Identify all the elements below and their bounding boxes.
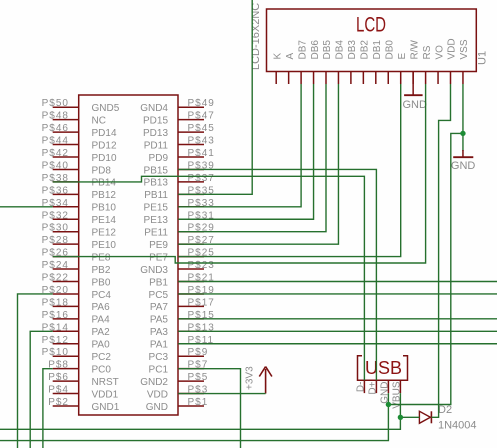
svg-text:PB15: PB15 [144, 165, 169, 176]
svg-text:P$42: P$42 [42, 148, 69, 159]
wire net P$29 to LCD DB5 [178, 84, 326, 232]
svg-text:GND4: GND4 [140, 103, 168, 114]
wire net P$38/PB14 to USB D- (jog inside IC) [53, 176, 365, 380]
svg-text:DB5: DB5 [322, 40, 333, 60]
pin P$5 (GND2) right stub + number + name [140, 372, 208, 388]
wire net P$31 to LCD DB6 [178, 84, 313, 219]
LCD pin VDD stub + label [447, 38, 458, 84]
pin P$30 (PE12) left stub + number + name [42, 223, 117, 239]
pin P$39 (PB15) right stub + number + name [144, 160, 215, 176]
svg-text:PC4: PC4 [92, 290, 112, 301]
svg-text:PD13: PD13 [143, 128, 168, 139]
pin P$49 (GND4) right stub + number + name [140, 98, 215, 114]
wire net P$3/VDD1 to +3V3 supply [178, 393, 265, 395]
svg-text:PE9: PE9 [149, 240, 168, 251]
pin P$12 (PA0) left stub + number + name [42, 335, 110, 351]
pin P$35 (PB11) right stub + number + name [144, 185, 215, 201]
pin P$34 (PB10) left stub + number + name [42, 198, 117, 214]
svg-text:P$48: P$48 [42, 111, 69, 122]
USB title text [365, 358, 402, 378]
pin P$41 (PD9) right stub + number + name [149, 148, 215, 164]
pin P$26 (PE8) left stub + number + name [42, 248, 111, 264]
svg-text:P$16: P$16 [42, 310, 69, 321]
wire net LCD VDD to diode cathode [431, 84, 450, 417]
pin P$31 (PE13) right stub + number + name [144, 210, 215, 226]
svg-text:A: A [285, 53, 296, 60]
svg-text:PB12: PB12 [92, 190, 117, 201]
svg-text:P$46: P$46 [42, 123, 69, 134]
svg-text:D+: D+ [367, 381, 378, 394]
LCD pin DB4 stub + label [335, 40, 346, 84]
svg-text:P$10: P$10 [42, 347, 69, 358]
LCD pin A stub + label [285, 53, 296, 85]
pin P$25 (PE7) right stub + number + name [149, 248, 215, 264]
pin P$32 (PE14) left stub + number + name [42, 210, 117, 226]
svg-text:GND: GND [403, 99, 428, 111]
pin P$16 (PA4) left stub + number + name [42, 310, 110, 326]
svg-text:PA5: PA5 [150, 315, 169, 326]
svg-text:PA7: PA7 [150, 302, 169, 313]
svg-text:PD9: PD9 [149, 153, 169, 164]
svg-text:P$28: P$28 [42, 235, 69, 246]
svg-text:VO: VO [434, 45, 445, 60]
junction at USB VBUS [398, 415, 403, 420]
pin P$20 (PC4) left stub + number + name [42, 285, 112, 301]
LCD display U1 body [267, 9, 477, 72]
svg-text:NRST: NRST [92, 377, 119, 388]
LCD pin DB7 stub + label [297, 40, 308, 84]
svg-text:1N4004: 1N4004 [438, 420, 477, 432]
svg-text:PB1: PB1 [149, 277, 168, 288]
pin P$50 (GND5) left stub + number + name [42, 98, 120, 114]
LCD pin K stub + label [272, 53, 283, 85]
svg-text:PB13: PB13 [144, 178, 169, 189]
pin P$14 (PA2) left stub + number + name [42, 322, 110, 338]
svg-text:P$18: P$18 [42, 297, 69, 308]
svg-text:GND5: GND5 [92, 103, 120, 114]
svg-text:PA6: PA6 [92, 302, 111, 313]
svg-text:PE15: PE15 [144, 203, 169, 214]
pin P$9 (PC3) right stub + number + name [149, 347, 209, 363]
USB pin D+ stub + label [367, 380, 378, 394]
svg-text:R/W: R/W [409, 40, 420, 60]
svg-text:PE7: PE7 [149, 252, 168, 263]
USB connector body [358, 356, 408, 380]
wire net P$13 to right edge [178, 330, 497, 332]
pin P$33 (PE15) right stub + number + name [144, 198, 215, 214]
svg-text:+3V3: +3V3 [244, 366, 255, 390]
junction at USB GND [386, 402, 391, 407]
pin P$40 (PD8) left stub + number + name [42, 160, 112, 176]
svg-text:GND: GND [146, 402, 168, 413]
USB pin VBUS stub + label [391, 380, 402, 409]
svg-text:P$6: P$6 [48, 372, 69, 383]
LCD title text [356, 12, 386, 36]
wire net P$20 down to bottom edge [18, 294, 53, 448]
ground symbol GND (LCD R/W) [403, 72, 428, 111]
diode D2 1N4004 [419, 404, 476, 432]
pin P$2 (GND1) left stub + number + name [48, 397, 120, 413]
svg-text:LCD: LCD [356, 12, 386, 36]
pin P$28 (PE10) left stub + number + name [42, 235, 117, 251]
svg-text:PC3: PC3 [149, 352, 169, 363]
pin P$42 (PD10) left stub + number + name [42, 148, 117, 164]
svg-text:DB2: DB2 [360, 40, 371, 60]
svg-text:PA1: PA1 [150, 340, 169, 351]
svg-text:P$49: P$49 [188, 98, 215, 109]
pin P$3 (VDD) right stub + number + name [147, 385, 208, 401]
pin P$18 (PA6) left stub + number + name [42, 297, 110, 313]
wire net USB GND pin to junction and left edge [0, 393, 388, 441]
pin P$15 (PA5) right stub + number + name [150, 310, 215, 326]
svg-text:P$24: P$24 [42, 260, 69, 271]
wire net P$25 to LCD E [178, 84, 400, 257]
svg-text:PA3: PA3 [150, 327, 169, 338]
svg-text:PB11: PB11 [144, 190, 168, 201]
svg-text:NC: NC [92, 115, 106, 126]
wire net P$39/PB15 to USB D+ [178, 169, 376, 380]
svg-text:VDD1: VDD1 [92, 389, 119, 400]
LCD pin DB0 stub + label [384, 40, 395, 84]
wire net P$14 down to bottom edge [30, 331, 53, 448]
pin P$11 (PA1) right stub + number + name [150, 335, 214, 351]
USB pin GND stub + label [379, 380, 390, 404]
wire VBUS junction to diode anode [400, 416, 419, 418]
LCD pin DB5 stub + label [322, 40, 333, 84]
pin P$17 (PA7) right stub + number + name [150, 297, 215, 313]
svg-text:U1: U1 [477, 51, 489, 65]
svg-text:GND3: GND3 [140, 265, 168, 276]
pin P$37 (PB13) right stub + number + name [144, 173, 215, 189]
supply symbol +3V3 arrow [244, 366, 272, 394]
wire net P$21 to right edge [178, 281, 497, 283]
svg-text:PD10: PD10 [92, 153, 117, 164]
svg-text:PB0: PB0 [92, 277, 111, 288]
svg-text:PC0: PC0 [92, 364, 112, 375]
pin P$21 (PB1) right stub + number + name [149, 273, 215, 289]
pin P$24 (PB2) left stub + number + name [42, 260, 111, 276]
svg-text:PD11: PD11 [144, 140, 169, 151]
svg-text:P$40: P$40 [42, 160, 69, 171]
svg-text:P$12: P$12 [42, 335, 69, 346]
svg-text:PC1: PC1 [149, 364, 169, 375]
svg-text:P$30: P$30 [42, 223, 69, 234]
svg-text:P$44: P$44 [42, 136, 69, 147]
pin P$7 (PC1) right stub + number + name [149, 360, 209, 376]
svg-text:DB0: DB0 [384, 40, 395, 60]
LCD pin DB6 stub + label [310, 40, 321, 84]
svg-text:P$22: P$22 [42, 273, 69, 284]
svg-text:P$1: P$1 [188, 397, 209, 408]
LCD reference designator U1 [477, 51, 489, 65]
svg-text:DB3: DB3 [347, 40, 358, 60]
svg-text:D2: D2 [438, 404, 452, 416]
pin P$1 (GND) right stub + number + name [146, 397, 209, 413]
wire net P$8 down to bottom edge [43, 369, 53, 448]
svg-text:PA0: PA0 [92, 340, 111, 351]
LCD value label LCD-16X2NC [250, 3, 262, 70]
pin P$13 (PA3) right stub + number + name [150, 322, 215, 338]
pin P$38 (PB14) left stub + number + name [42, 173, 117, 189]
svg-text:P$4: P$4 [48, 385, 69, 396]
wire net P$26/PE8 to LCD RS (jog inside IC) [53, 84, 426, 263]
svg-text:PA4: PA4 [92, 315, 111, 326]
svg-text:GND2: GND2 [140, 377, 168, 388]
svg-text:PD14: PD14 [92, 128, 117, 139]
svg-text:P$43: P$43 [188, 136, 215, 147]
svg-text:PE12: PE12 [92, 228, 117, 239]
svg-text:D-: D- [355, 382, 366, 393]
pin P$46 (PD14) left stub + number + name [42, 123, 117, 139]
svg-text:K: K [272, 53, 283, 60]
pin P$43 (PD11) right stub + number + name [144, 136, 215, 152]
pin P$10 (PC2) left stub + number + name [42, 347, 112, 363]
svg-text:PE10: PE10 [92, 240, 117, 251]
wire net P$34/PB10 to left edge [0, 206, 53, 208]
svg-text:PD12: PD12 [92, 140, 117, 151]
wire net P$15 to right edge [178, 318, 497, 320]
pin P$29 (PE11) right stub + number + name [144, 223, 215, 239]
LCD pin VSS stub + label [459, 39, 470, 84]
svg-text:PB14: PB14 [92, 178, 117, 189]
svg-text:RS: RS [422, 45, 433, 59]
svg-text:PE11: PE11 [144, 228, 168, 239]
wire net PB12/P$35 to top edge [178, 0, 252, 194]
svg-text:PD8: PD8 [92, 165, 112, 176]
svg-text:E: E [397, 53, 408, 60]
svg-text:P$5: P$5 [188, 372, 209, 383]
svg-text:DB7: DB7 [297, 40, 308, 60]
svg-text:P$37: P$37 [188, 173, 215, 184]
svg-text:PB10: PB10 [92, 203, 117, 214]
junction at LCD VSS / GND [460, 131, 465, 136]
svg-text:PE14: PE14 [92, 215, 117, 226]
svg-text:P$45: P$45 [188, 123, 215, 134]
svg-text:P$9: P$9 [188, 347, 209, 358]
pin P$22 (PB0) left stub + number + name [42, 273, 111, 289]
svg-text:P$50: P$50 [42, 98, 69, 109]
pin P$27 (PE9) right stub + number + name [149, 235, 215, 251]
ground symbol GND (LCD VSS net) [451, 133, 476, 172]
LCD pin DB3 stub + label [347, 40, 358, 84]
wire net P$33 to LCD DB7 [178, 84, 301, 207]
svg-text:P$2: P$2 [48, 397, 69, 408]
pin P$23 (GND3) right stub + number + name [140, 260, 215, 276]
wire net P$19 to right edge [178, 293, 497, 295]
pin P$47 (PD15) right stub + number + name [143, 111, 215, 127]
LCD pin DB1 stub + label [372, 40, 383, 84]
svg-text:P$47: P$47 [188, 111, 215, 122]
svg-text:PD15: PD15 [143, 115, 168, 126]
LCD pin E stub + label [397, 53, 408, 85]
LCD pin DB2 stub + label [360, 40, 371, 84]
svg-text:P$17: P$17 [188, 297, 215, 308]
wire net P$11 to right edge [178, 343, 497, 345]
USB pin D- stub + label [355, 380, 366, 393]
pin P$4 (VDD1) left stub + number + name [48, 385, 118, 401]
pin P$45 (PD13) right stub + number + name [143, 123, 215, 139]
svg-text:P$36: P$36 [42, 185, 69, 196]
wire net USB VBUS pin to diode anode and left edge [0, 393, 400, 429]
pin P$48 (NC) left stub + number + name [42, 111, 106, 127]
svg-text:PB2: PB2 [92, 265, 111, 276]
svg-text:DB1: DB1 [372, 40, 383, 60]
svg-text:DB6: DB6 [310, 40, 321, 60]
pin P$8 (PC0) left stub + number + name [48, 360, 111, 376]
wire net P$27 to LCD DB4 [178, 84, 338, 244]
svg-text:VSS: VSS [459, 39, 470, 59]
svg-text:P$32: P$32 [42, 210, 69, 221]
wire net LCD VSS down to junction [462, 84, 464, 133]
svg-text:P$41: P$41 [188, 148, 215, 159]
pin P$6 (NRST) left stub + number + name [48, 372, 119, 388]
pin P$44 (PD12) left stub + number + name [42, 136, 117, 152]
svg-text:PE8: PE8 [92, 252, 111, 263]
IC U$1 (50-pin MCU half) body [79, 95, 178, 415]
LCD pin VO stub + label [434, 45, 445, 84]
pin P$36 (PB12) left stub + number + name [42, 185, 117, 201]
pin P$19 (PC5) right stub + number + name [149, 285, 215, 301]
svg-text:P$23: P$23 [188, 260, 215, 271]
wire net VSS junction to USB GND (GND bus) [388, 133, 463, 404]
wire net P$7 to bottom edge [178, 369, 240, 448]
svg-text:VDD: VDD [147, 389, 168, 400]
LCD pin R/W stub + label [409, 40, 420, 85]
svg-text:PC2: PC2 [92, 352, 112, 363]
svg-text:VDD: VDD [447, 38, 458, 59]
svg-text:GND: GND [451, 160, 476, 172]
svg-text:PC5: PC5 [149, 290, 169, 301]
LCD pin RS stub + label [422, 45, 433, 84]
svg-text:PE13: PE13 [144, 215, 169, 226]
svg-text:GND1: GND1 [92, 402, 120, 413]
svg-text:DB4: DB4 [335, 40, 346, 60]
svg-text:USB: USB [365, 358, 402, 378]
svg-text:PA2: PA2 [92, 327, 111, 338]
